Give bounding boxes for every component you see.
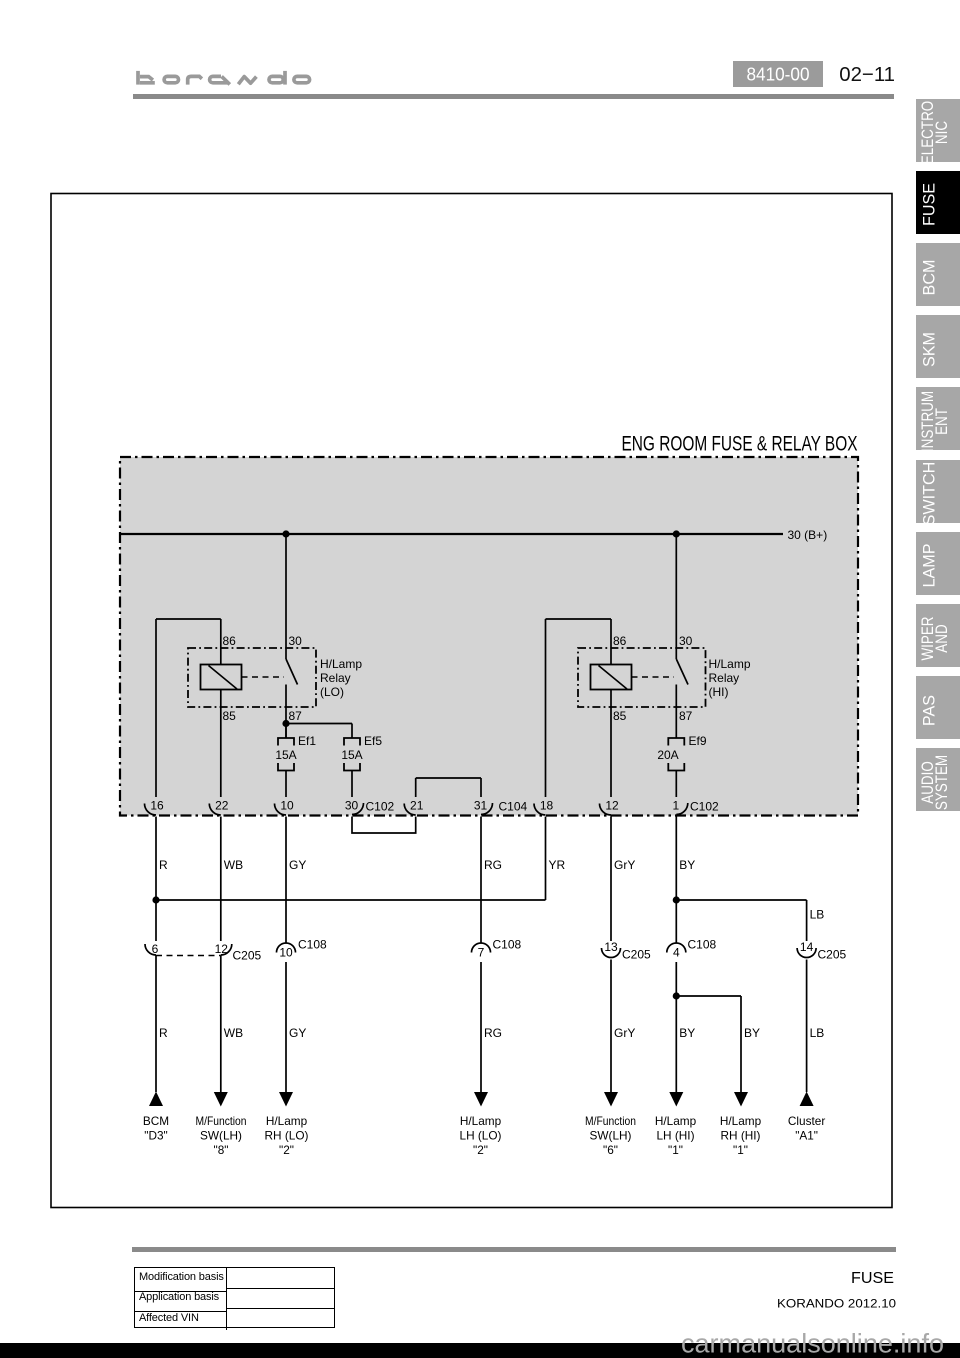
wire WB pin22 down	[220, 817, 222, 942]
wire GY to H/Lamp RH LO	[285, 962, 287, 1092]
header rule	[133, 94, 894, 99]
svg-text:Ef1: Ef1	[298, 734, 316, 748]
svg-text:15A: 15A	[341, 748, 362, 762]
svg-text:13: 13	[604, 940, 618, 954]
svg-text:87: 87	[679, 709, 693, 723]
sidebar tab PAS	[916, 676, 960, 739]
svg-text:KORANDO 2012.10: KORANDO 2012.10	[777, 1297, 896, 1311]
wire pin18 vertical (inside box)	[545, 619, 547, 797]
connector pin 16 (fuse box)	[145, 799, 164, 816]
bottom black bar	[0, 1343, 960, 1358]
svg-text:BY: BY	[679, 858, 695, 872]
svg-text:BCM: BCM	[143, 1114, 169, 1128]
svg-text:C104: C104	[499, 800, 528, 814]
svg-text:21: 21	[410, 799, 424, 813]
label H/Lamp RH (HI) 1	[720, 1114, 762, 1157]
sidebar tab FUSE	[916, 171, 960, 234]
svg-text:LB: LB	[810, 1026, 825, 1040]
svg-text:18: 18	[540, 799, 554, 813]
label 15A (Ef1)	[275, 748, 296, 762]
label Ef1	[298, 734, 316, 748]
svg-text:RH (HI): RH (HI)	[721, 1129, 761, 1143]
svg-text:C108: C108	[493, 938, 522, 952]
wire Ef5 to pin30	[351, 771, 353, 798]
sidebar tab AUDIO SYSTEM	[916, 748, 960, 811]
wire down to fuse Ef5	[351, 724, 353, 739]
connector pin 22 (fuse box)	[209, 799, 228, 816]
wire switch K2 87 to fuse Ef9	[675, 685, 677, 739]
wire BY to H/Lamp LH HI	[675, 962, 677, 1092]
label H/Lamp RH (LO) 2	[265, 1114, 309, 1157]
connector pin 18 (fuse box)	[534, 799, 553, 816]
wire bridge 21-31	[416, 778, 481, 797]
fuse Ef9 20A	[668, 738, 684, 771]
wire GrY to M/Function SW	[610, 960, 612, 1093]
sidebar tab BCM	[916, 243, 960, 306]
svg-text:SW(LH): SW(LH)	[590, 1129, 632, 1143]
connector C205 pins 6-12 (dashed)	[145, 942, 262, 963]
label Ef9	[689, 734, 707, 748]
connector pin 12 (fuse box)	[600, 799, 619, 816]
wire GrY pin12 down	[610, 817, 612, 942]
wire label R (upper)	[159, 858, 168, 872]
wire label YR (upper)	[549, 858, 566, 872]
wire 30(B+) bus	[120, 533, 783, 535]
svg-text:WB: WB	[224, 858, 243, 872]
connector C205 pin 14	[797, 940, 846, 962]
svg-text:22: 22	[215, 799, 229, 813]
arrow to H/Lamp RH HI (down)	[734, 1092, 748, 1107]
wire label BY (upper)	[679, 858, 695, 872]
label H/Lamp LH (LO) 2	[460, 1114, 502, 1157]
wire Ef9 to pin1	[675, 771, 677, 798]
wire label GrY (upper)	[614, 858, 635, 872]
svg-text:R: R	[159, 858, 168, 872]
wire label WB (upper)	[224, 858, 243, 872]
wire label GY (upper)	[289, 858, 306, 872]
wire coil K1 to pin22	[220, 690, 222, 798]
label Cluster A1	[788, 1114, 825, 1143]
svg-text:H/Lamp: H/Lamp	[655, 1114, 697, 1128]
korando logo	[0, 0, 960, 120]
wire 87 junction to Ef5	[286, 723, 352, 725]
wire Ef1 to pin10	[285, 771, 287, 798]
pin label 30 (K2)	[679, 634, 693, 648]
svg-text:Ef5: Ef5	[364, 734, 382, 748]
wire loop pin30 to pin21 (below box)	[352, 817, 416, 834]
svg-text:Ef9: Ef9	[689, 734, 707, 748]
sidebar tab SWITCH	[916, 460, 960, 523]
footer section FUSE	[790, 1266, 900, 1290]
connector C102 pin 1	[672, 799, 719, 815]
svg-text:"2": "2"	[279, 1143, 294, 1157]
svg-text:SW(LH): SW(LH)	[200, 1129, 242, 1143]
svg-text:4: 4	[673, 946, 680, 960]
wire pin16 vertical (inside box)	[155, 619, 157, 797]
sidebar tab WIPER AND	[916, 604, 960, 667]
svg-text:10: 10	[279, 946, 293, 960]
svg-text:86: 86	[223, 634, 237, 648]
svg-text:7: 7	[478, 946, 485, 960]
relay K1 coil-switch link (dashed)	[242, 676, 285, 678]
svg-text:YR: YR	[549, 858, 566, 872]
svg-text:C205: C205	[622, 948, 651, 962]
svg-text:Cluster: Cluster	[788, 1114, 825, 1128]
connector C108 pin 7	[472, 938, 522, 960]
connector C104 pin 31	[474, 799, 528, 815]
svg-text:C102: C102	[366, 800, 395, 814]
pin label 85 (K1)	[223, 709, 237, 723]
svg-text:LH (HI): LH (HI)	[656, 1129, 694, 1143]
fuse Ef5 15A	[344, 738, 360, 771]
relay K1 box (H/Lamp Relay LO)	[188, 648, 316, 707]
relay K2 switch blade	[676, 659, 688, 685]
svg-text:12: 12	[605, 799, 619, 813]
wire label RG (upper)	[484, 858, 502, 872]
wire coil K2 to pin12	[610, 690, 612, 797]
wire relay K2 86 feed horizontal	[546, 618, 612, 620]
svg-text:C205: C205	[233, 949, 262, 963]
svg-text:85: 85	[223, 709, 237, 723]
pin label 87 (K1)	[289, 709, 303, 723]
wire label RG (lower)	[484, 1026, 502, 1040]
connector C108 pin 10	[277, 938, 328, 960]
svg-text:R: R	[159, 1026, 168, 1040]
label 20A (Ef9)	[657, 748, 678, 762]
connector C108 pin 4	[667, 938, 717, 960]
wire LB to Cluster	[806, 960, 808, 1093]
arrow to M/Function SW LH (down)	[214, 1092, 228, 1107]
arrow to M/Function SW LH 6 (down)	[604, 1092, 618, 1107]
svg-text:RH (LO): RH (LO)	[265, 1129, 309, 1143]
wire RG pin31 down	[480, 817, 482, 944]
svg-text:GrY: GrY	[614, 858, 635, 872]
connector C102 pin 30	[345, 799, 395, 815]
wire bus to relay K1 pin30	[285, 534, 287, 659]
relay K1 switch blade	[286, 659, 298, 685]
svg-text:86: 86	[613, 634, 627, 648]
label H/Lamp Relay (HI)	[709, 657, 751, 699]
svg-text:85: 85	[613, 709, 627, 723]
wire R to BCM	[155, 956, 157, 1093]
svg-text:GrY: GrY	[614, 1026, 635, 1040]
wire label LB (upper)	[810, 908, 825, 922]
svg-text:C108: C108	[688, 938, 717, 952]
connector C205 pin 13	[602, 940, 652, 962]
relay K1 coil	[201, 665, 242, 690]
svg-text:"2": "2"	[473, 1143, 488, 1157]
wire BY to H/Lamp RH HI	[740, 996, 742, 1092]
wire WB to M/Function SW	[220, 956, 222, 1093]
wire label GY (lower)	[289, 1026, 306, 1040]
svg-text:1: 1	[672, 799, 679, 813]
page number 02-11	[830, 58, 910, 88]
svg-text:C205: C205	[818, 948, 847, 962]
fuse Ef1 15A	[278, 725, 294, 771]
wire YR pin18 down	[545, 817, 547, 901]
wire GY pin10 down	[285, 817, 287, 944]
svg-text:"A1": "A1"	[795, 1129, 818, 1143]
wire 86 down to coil K1	[220, 619, 222, 665]
arrow to BCM (up)	[149, 1092, 163, 1107]
footer revision table	[134, 1267, 335, 1328]
node junction BY RH-branch	[673, 992, 680, 999]
svg-text:C108: C108	[298, 938, 327, 952]
wire 86 down to coil K2	[610, 619, 612, 665]
svg-text:"D3": "D3"	[144, 1129, 167, 1143]
svg-text:30: 30	[289, 634, 303, 648]
svg-text:GY: GY	[289, 1026, 306, 1040]
diagram frame	[51, 194, 892, 1208]
arrow to H/Lamp RH LO (down)	[279, 1092, 293, 1107]
svg-text:12: 12	[215, 942, 229, 956]
node junction BY/LB	[673, 896, 680, 903]
wire BY branch horizontal	[676, 995, 741, 997]
wire bus to relay K2 pin30	[675, 534, 677, 659]
relay K2 coil-switch link (dashed)	[632, 676, 675, 678]
wire label BY (lower)	[679, 1026, 695, 1040]
svg-text:(HI): (HI)	[709, 685, 729, 699]
connector pin 10 (fuse box)	[275, 799, 294, 816]
svg-text:31: 31	[474, 799, 488, 813]
svg-text:LB: LB	[810, 908, 825, 922]
pin label 30 (K1)	[289, 634, 303, 648]
node bus junction right	[673, 530, 680, 537]
svg-text:15A: 15A	[275, 748, 296, 762]
wire label BY (lower, RH branch)	[744, 1026, 760, 1040]
svg-text:30 (B+): 30 (B+)	[788, 528, 828, 542]
wire label WB (lower)	[224, 1026, 243, 1040]
label H/Lamp LH (HI) 1	[655, 1114, 697, 1157]
label M/Function SW(LH) 6	[585, 1114, 636, 1157]
svg-text:30: 30	[345, 799, 359, 813]
wire LB branch horizontal	[676, 899, 806, 901]
arrow to H/Lamp LH HI (down)	[669, 1092, 683, 1107]
svg-text:87: 87	[289, 709, 303, 723]
sidebar tab LAMP	[916, 532, 960, 595]
svg-text:M/Function: M/Function	[585, 1114, 636, 1128]
wire BY pin1 down	[675, 817, 677, 944]
sidebar tab ELECTRO NIC	[916, 99, 960, 162]
footer rule	[132, 1247, 896, 1252]
svg-text:WB: WB	[224, 1026, 243, 1040]
wire label GrY (lower)	[614, 1026, 635, 1040]
svg-text:M/Function: M/Function	[196, 1114, 247, 1128]
label M/Function SW(LH) 8	[196, 1114, 247, 1157]
svg-text:BY: BY	[744, 1026, 760, 1040]
node bus junction left	[282, 530, 289, 537]
pin label 87 (K2)	[679, 709, 693, 723]
svg-text:LH (LO): LH (LO)	[460, 1129, 502, 1143]
label BCM D3	[143, 1114, 169, 1143]
svg-text:FUSE: FUSE	[851, 1270, 894, 1287]
svg-text:16: 16	[150, 799, 164, 813]
wire R pin16 down	[155, 817, 157, 942]
label ENG ROOM FUSE & RELAY BOX	[622, 432, 858, 456]
svg-text:10: 10	[280, 799, 294, 813]
svg-text:Relay: Relay	[320, 671, 351, 685]
svg-text:Relay: Relay	[709, 671, 740, 685]
svg-text:20A: 20A	[657, 748, 678, 762]
relay K2 box (H/Lamp Relay HI)	[578, 648, 706, 707]
svg-text:BY: BY	[679, 1026, 695, 1040]
svg-text:H/Lamp: H/Lamp	[460, 1114, 502, 1128]
node 87 junction	[282, 720, 289, 727]
connector pin 21 (fuse box)	[404, 799, 423, 816]
svg-text:RG: RG	[484, 858, 502, 872]
svg-text:GY: GY	[289, 858, 306, 872]
svg-text:6: 6	[152, 942, 159, 956]
svg-text:"1": "1"	[668, 1143, 683, 1157]
wire LB down to C205	[806, 900, 808, 941]
label 30 (B+)	[788, 528, 828, 542]
svg-text:RG: RG	[484, 1026, 502, 1040]
svg-text:H/Lamp: H/Lamp	[720, 1114, 762, 1128]
svg-text:H/Lamp: H/Lamp	[320, 657, 362, 671]
svg-text:H/Lamp: H/Lamp	[266, 1114, 308, 1128]
node junction R/YR	[152, 896, 159, 903]
wire label R (lower)	[159, 1026, 168, 1040]
svg-text:H/Lamp: H/Lamp	[709, 657, 751, 671]
arrow to Cluster (up)	[800, 1092, 814, 1107]
relay K2 coil	[591, 665, 632, 690]
svg-text:C102: C102	[690, 800, 719, 814]
svg-text:"1": "1"	[733, 1143, 748, 1157]
svg-text:30: 30	[679, 634, 693, 648]
svg-text:carmanualsonline.info: carmanualsonline.info	[681, 1329, 944, 1358]
header code box 8410-00	[733, 61, 823, 87]
svg-text:"6": "6"	[603, 1143, 618, 1157]
svg-text:"8": "8"	[214, 1143, 229, 1157]
sidebar tab SKM	[916, 315, 960, 378]
watermark carmanualsonline.info	[650, 1320, 960, 1358]
pin label 86 (K2)	[613, 634, 627, 648]
eng room fuse & relay box enclosure (dash-dot)	[120, 457, 858, 816]
pin label 85 (K2)	[613, 709, 627, 723]
arrow to H/Lamp LH LO (down)	[474, 1092, 488, 1107]
wire relay K1 86 feed horizontal	[156, 618, 221, 620]
svg-text:(LO): (LO)	[320, 685, 344, 699]
label Ef5	[364, 734, 382, 748]
svg-text:ENG ROOM FUSE & RELAY BOX: ENG ROOM FUSE & RELAY BOX	[622, 432, 858, 456]
footer KORANDO 2012.10	[770, 1294, 900, 1314]
label 15A (Ef5)	[341, 748, 362, 762]
pin label 86 (K1)	[223, 634, 237, 648]
label H/Lamp Relay (LO)	[320, 657, 362, 699]
svg-text:14: 14	[800, 940, 814, 954]
wire label LB (lower)	[810, 1026, 825, 1040]
wire YR horizontal to BCM branch	[156, 899, 546, 901]
wire RG to H/Lamp LH LO	[480, 962, 482, 1092]
wire switch K1 87 down	[285, 685, 287, 739]
sidebar tab INSTRUM ENT	[916, 387, 960, 450]
